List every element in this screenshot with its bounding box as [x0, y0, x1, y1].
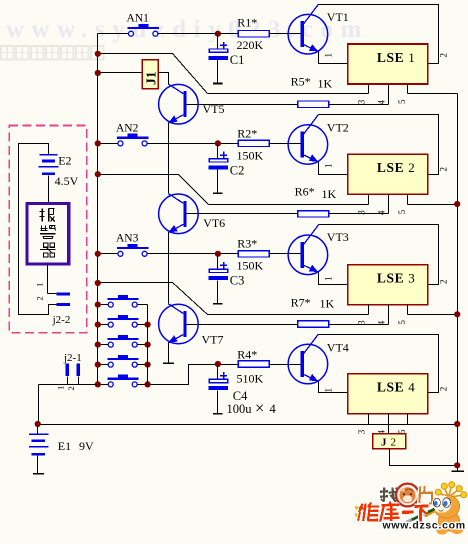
svg-text:VT6: VT6 [203, 216, 225, 230]
svg-text:2: 2 [439, 167, 449, 172]
resistor R6 [298, 211, 329, 217]
svg-text:4.5V: 4.5V [55, 174, 79, 188]
wire VT3 emitter to pin1 [319, 273, 348, 285]
op-amp U1 LSE 1 [348, 44, 428, 84]
resistor R1 [238, 31, 269, 37]
capacitor C4 [209, 365, 228, 414]
wire R2 to VT2 base [270, 143, 301, 145]
node rail button5 [145, 381, 151, 387]
transistor VT6 [159, 194, 199, 234]
svg-text:J1: J1 [144, 71, 159, 85]
node feed2 [95, 171, 101, 177]
transistor VT7 [159, 304, 199, 344]
label pin 4 row2 [376, 210, 386, 215]
label pin 2 row4 [439, 387, 449, 392]
svg-text:R7*: R7* [291, 296, 311, 310]
label pin 3 row2 [356, 210, 366, 215]
wire AN1 row [98, 33, 129, 35]
logo zhao char [380, 488, 397, 502]
svg-text:2: 2 [66, 386, 76, 390]
wire pin5 drop row2 [407, 195, 409, 205]
wire button4 right [138, 364, 148, 366]
svg-text:j2-2: j2-2 [52, 314, 71, 326]
logo xia char [415, 506, 429, 522]
label AN1 [127, 13, 150, 25]
label pin 5 row1 [397, 99, 407, 104]
wire button right rail [147, 305, 149, 385]
node J2 bus [454, 462, 460, 468]
transistor VT2 [288, 115, 328, 165]
svg-text:R4*: R4* [237, 347, 257, 361]
wire VT1 emitter to pin1 [319, 52, 348, 64]
label C3 [230, 273, 245, 287]
wire pin3 line row1 [208, 93, 369, 95]
svg-text:E1: E1 [58, 439, 71, 453]
svg-text:2: 2 [35, 296, 45, 300]
label pin 3 row1 [356, 99, 366, 104]
svg-text:AN3: AN3 [116, 233, 139, 245]
label pin 1 row2 [324, 164, 334, 169]
node rail button4 [145, 362, 151, 368]
label pin 1 row3 [324, 277, 334, 282]
svg-text:C3: C3 [230, 273, 245, 287]
wire pin4 drop row4 [388, 414, 390, 434]
label 220K [237, 38, 264, 52]
svg-text:220K: 220K [237, 38, 264, 52]
wire J1 to VT5 collector [159, 73, 169, 85]
resistor R3 [238, 251, 269, 257]
svg-text:9V: 9V [79, 439, 94, 453]
svg-text:4: 4 [408, 380, 415, 395]
svg-text:LSE: LSE [377, 270, 404, 285]
battery E1 [29, 425, 49, 474]
wire j2-2 upper stub [48, 293, 57, 295]
svg-text:2: 2 [408, 160, 415, 175]
wire VT5 base to R5 [187, 104, 298, 106]
svg-text:E2: E2 [58, 154, 71, 168]
push button S1 [108, 295, 139, 307]
label 510K [237, 371, 264, 385]
label C4 [233, 389, 248, 403]
svg-text:R5*: R5* [291, 75, 311, 89]
logo motion dashes [355, 506, 364, 518]
svg-text:R6*: R6* [295, 185, 315, 199]
wire AN1 to C1 [159, 33, 239, 35]
svg-text:3: 3 [356, 99, 366, 104]
node bus button1 [95, 302, 101, 308]
node J1 tap [95, 70, 101, 76]
node bus button2 [95, 322, 101, 328]
logo yi char [402, 509, 414, 515]
label R4* [237, 347, 257, 361]
label pin 5 row2 [397, 209, 407, 214]
logo ku char [380, 501, 399, 521]
label j2-2 pin2 [35, 296, 45, 300]
wire pin3 drop row1 [368, 85, 370, 94]
wire pin5 drop row4 [407, 414, 409, 425]
svg-text:2: 2 [439, 53, 449, 58]
svg-text:3: 3 [408, 270, 415, 285]
svg-text:150K: 150K [237, 149, 264, 163]
wire pin3 line row3 [208, 314, 369, 316]
svg-text:AN1: AN1 [127, 13, 150, 25]
svg-text:www.dzsc.com: www.dzsc.com [382, 520, 466, 532]
push button S5 [108, 375, 139, 387]
svg-text:1K: 1K [322, 187, 337, 201]
label R7* [291, 296, 311, 310]
wire button1 right [138, 304, 148, 306]
node AN2 bus [95, 140, 101, 146]
svg-text:VT7: VT7 [202, 332, 224, 346]
alarm text qi [40, 243, 56, 257]
wire pin5 drop row3 [407, 305, 409, 315]
capacitor C2 [209, 144, 228, 194]
push button AN1 [128, 24, 160, 36]
wire feed diag row2 [98, 175, 209, 205]
label pin 2 row2 [439, 167, 449, 172]
jumper J2 [373, 434, 406, 449]
label j2-1 pin1 [56, 386, 66, 390]
wire j2-1 row [39, 384, 98, 386]
label pin 2 row3 [439, 280, 449, 285]
label pin 2 row1 [439, 53, 449, 58]
wire button2 right [138, 324, 148, 326]
svg-text:LSE: LSE [377, 160, 404, 175]
label R3* [237, 237, 257, 251]
node bus row2 [454, 201, 460, 207]
svg-text:4: 4 [376, 100, 386, 105]
logo mascot [407, 482, 467, 535]
decor2 [1, 46, 104, 60]
svg-text:VT3: VT3 [327, 230, 349, 244]
svg-text:2: 2 [439, 387, 449, 392]
svg-text:1: 1 [56, 386, 66, 390]
push button AN3 [117, 244, 149, 256]
label pin 5 row3 [397, 320, 407, 325]
node rail button3 [145, 342, 151, 348]
svg-text:j2-1: j2-1 [63, 352, 82, 364]
wire pin3 drop row4 [368, 414, 370, 425]
wire pin4 drop row1 [388, 85, 390, 105]
node C2 top [215, 140, 221, 146]
svg-text:1: 1 [324, 53, 334, 58]
node C4 top [215, 361, 221, 367]
svg-text:2: 2 [391, 436, 397, 448]
alarm box [27, 204, 69, 264]
wire AN3 to C3 [148, 253, 239, 255]
label j2-1 pin2 [66, 386, 76, 390]
node E1 top [35, 421, 41, 427]
wire VT4 emitter to pin1 [319, 382, 348, 393]
svg-text:VT4: VT4 [327, 340, 349, 354]
right bus end bar [451, 470, 464, 472]
wire j2-1 down [38, 385, 40, 425]
label R5* [291, 75, 311, 89]
svg-text:LSE: LSE [377, 50, 404, 65]
label VT1 [327, 10, 349, 24]
push button S4 [108, 355, 139, 367]
svg-text:R1*: R1* [237, 15, 257, 29]
wire VT7 emitter stub [168, 343, 170, 364]
wire pin3 line row2 [209, 204, 369, 206]
label VT5 [203, 102, 225, 116]
connector j2-1 [65, 364, 79, 385]
battery E2 [39, 155, 59, 204]
label pin 3 row3 [356, 320, 366, 325]
node bus row3 [454, 311, 460, 317]
label pin 5 row4 [397, 429, 407, 434]
svg-text:100u: 100u [227, 402, 253, 416]
wire alarm loop top [19, 144, 57, 315]
push button S2 [108, 315, 139, 327]
wire pin3 drop row2 [368, 195, 370, 205]
label R6 1K [322, 187, 337, 201]
node feed1 [95, 51, 101, 57]
svg-text:1: 1 [324, 164, 334, 169]
logo wei char [358, 503, 379, 521]
label C1 [230, 53, 245, 67]
logo url [382, 520, 466, 532]
wire VT5 emitter to VT6 collector [168, 123, 170, 194]
svg-text:150K: 150K [237, 259, 264, 273]
node rail button2 [145, 322, 151, 328]
wire row4 feed [148, 365, 239, 385]
svg-text:VT5: VT5 [203, 102, 225, 116]
wire button2 left [98, 324, 109, 326]
label VT4 [327, 340, 349, 354]
wire left bus [97, 34, 99, 385]
op-amp U4 LSE 4 [348, 374, 428, 414]
resistor R7 [298, 321, 329, 327]
label E2 [58, 154, 71, 168]
label R6* [295, 185, 315, 199]
node bus button4 [95, 362, 101, 368]
label j2-2 [52, 314, 71, 326]
label pin 4 row4 [376, 430, 386, 435]
wire VT4 collector frame [319, 335, 439, 393]
label AN2 [116, 122, 139, 134]
label VT7 [202, 332, 224, 346]
wire pin4 drop row2 [388, 195, 390, 214]
svg-text:510K: 510K [237, 371, 264, 385]
wire R1 to VT1 base [270, 33, 301, 35]
label VT3 [327, 230, 349, 244]
svg-text:VT1: VT1 [327, 10, 349, 24]
resistor R2 [238, 140, 269, 146]
node C3 top [215, 251, 221, 257]
wire R7 line [329, 324, 389, 326]
push button AN2 [117, 134, 149, 146]
svg-text:LSE: LSE [377, 380, 404, 395]
svg-text:J: J [381, 436, 387, 448]
node feed3 [95, 280, 101, 286]
wire button1 left [98, 304, 109, 306]
label R7 1K [320, 297, 335, 311]
svg-text:4: 4 [376, 210, 386, 215]
wire alarm box bottom [47, 264, 49, 294]
label j2-1 [63, 352, 82, 364]
label R5 1K [318, 77, 333, 91]
resistor R5 [298, 101, 329, 107]
label 4.5V [55, 174, 79, 188]
alarm text jing [40, 226, 56, 239]
node bus button3 [95, 342, 101, 348]
wire R5 line [329, 104, 389, 106]
wire AN3 row [98, 253, 118, 255]
wire bottom rail [38, 424, 458, 426]
label VT2 [327, 121, 349, 135]
svg-text:1: 1 [324, 388, 334, 393]
wire VT2 collector frame [319, 115, 439, 175]
svg-text:R3*: R3* [237, 237, 257, 251]
label 150K row3 [237, 259, 264, 273]
transistor VT4 [288, 334, 328, 384]
svg-text:5: 5 [397, 320, 407, 325]
label pin 3 row4 [356, 429, 366, 434]
label 100ux4 [227, 399, 277, 418]
label j2-2 pin1 [35, 283, 45, 287]
label VT6 [203, 216, 225, 230]
wire AN2 row [98, 143, 118, 145]
wire pin3 drop row3 [368, 305, 370, 315]
jumper J1 [142, 60, 158, 89]
wire right bus [457, 94, 459, 472]
wire button5 right [138, 384, 148, 386]
svg-text:×: × [255, 399, 264, 418]
decor [6, 16, 369, 43]
wire button3 left [98, 344, 109, 346]
label pin 4 row3 [376, 320, 386, 325]
svg-text:1K: 1K [320, 297, 335, 311]
resistor R4 [238, 361, 269, 367]
wire J2 to right bus [390, 449, 458, 466]
label 150K row2 [237, 149, 264, 163]
transistor VT5 [159, 84, 199, 124]
connector j2-2 [56, 292, 70, 305]
wire R4 to VT4 base [270, 364, 301, 366]
capacitor C1 [209, 34, 228, 84]
label E1 [58, 439, 71, 453]
svg-text:5: 5 [397, 209, 407, 214]
wire feed diag row1 [98, 54, 208, 94]
wire VT2 emitter to pin1 [319, 162, 348, 175]
label C2 [230, 163, 245, 177]
capacitor C3 [209, 254, 228, 304]
node C1 top [215, 31, 221, 37]
logo ring [396, 484, 419, 507]
svg-text:1: 1 [408, 50, 415, 65]
svg-text:1: 1 [324, 277, 334, 282]
wire R6 line [329, 213, 389, 215]
svg-text:5: 5 [397, 99, 407, 104]
svg-text:AN2: AN2 [116, 122, 139, 134]
wire feed diag row3 [98, 283, 208, 315]
svg-text:3: 3 [356, 429, 366, 434]
wire VT6 emitter to VT7 collector [168, 233, 170, 304]
svg-text:C1: C1 [230, 53, 245, 67]
wire pin4 drop row3 [388, 305, 390, 325]
VT7 emitter end bar [163, 362, 174, 364]
wire R3 to VT3 base [270, 253, 301, 255]
wire button5 left [98, 384, 109, 386]
svg-text:C4: C4 [233, 389, 248, 403]
wire pin5 to right bus row2 [408, 204, 458, 206]
svg-text:2: 2 [439, 280, 449, 285]
label 9V [79, 439, 94, 453]
svg-text:www.sydzdiy023.com: www.sydzdiy023.com [6, 16, 369, 43]
wire button4 left [98, 364, 109, 366]
svg-text:VT2: VT2 [327, 121, 349, 135]
label AN3 [116, 233, 139, 245]
wire pin5 to right bus row3 [408, 314, 458, 316]
alarm text bao [40, 209, 55, 222]
op-amp U3 LSE 3 [348, 265, 428, 305]
wire VT7 base to R7 [187, 324, 298, 326]
transistor VT1 [288, 4, 328, 54]
svg-text:1: 1 [35, 283, 45, 287]
node bus button5 [95, 381, 101, 387]
wire VT1 collector frame [319, 5, 439, 64]
label R1* [237, 15, 257, 29]
wire AN2 to C2 [148, 143, 239, 145]
wire VT3 collector frame [319, 225, 439, 285]
wire VT6 base to R6 [187, 213, 298, 215]
label pin 1 row1 [324, 53, 334, 58]
node AN3 bus [95, 251, 101, 257]
label R2* [237, 127, 257, 141]
dashed enclosure [9, 125, 87, 332]
label pin 1 row4 [324, 388, 334, 393]
svg-text:C2: C2 [230, 163, 245, 177]
wire button3 right [138, 344, 148, 346]
node bottom right [454, 421, 460, 427]
svg-text:R2*: R2* [237, 127, 257, 141]
svg-text:4: 4 [270, 402, 277, 416]
wire J1 tap [98, 72, 143, 74]
wire pin5 drop row1 [407, 85, 409, 94]
op-amp U2 LSE 2 [348, 154, 428, 194]
push button S3 [108, 335, 139, 347]
wire pin5 to right bus row1 [408, 93, 458, 95]
svg-text:1K: 1K [318, 77, 333, 91]
label pin 4 row1 [376, 100, 386, 105]
transistor VT3 [288, 225, 328, 275]
logo pian char [419, 486, 433, 504]
